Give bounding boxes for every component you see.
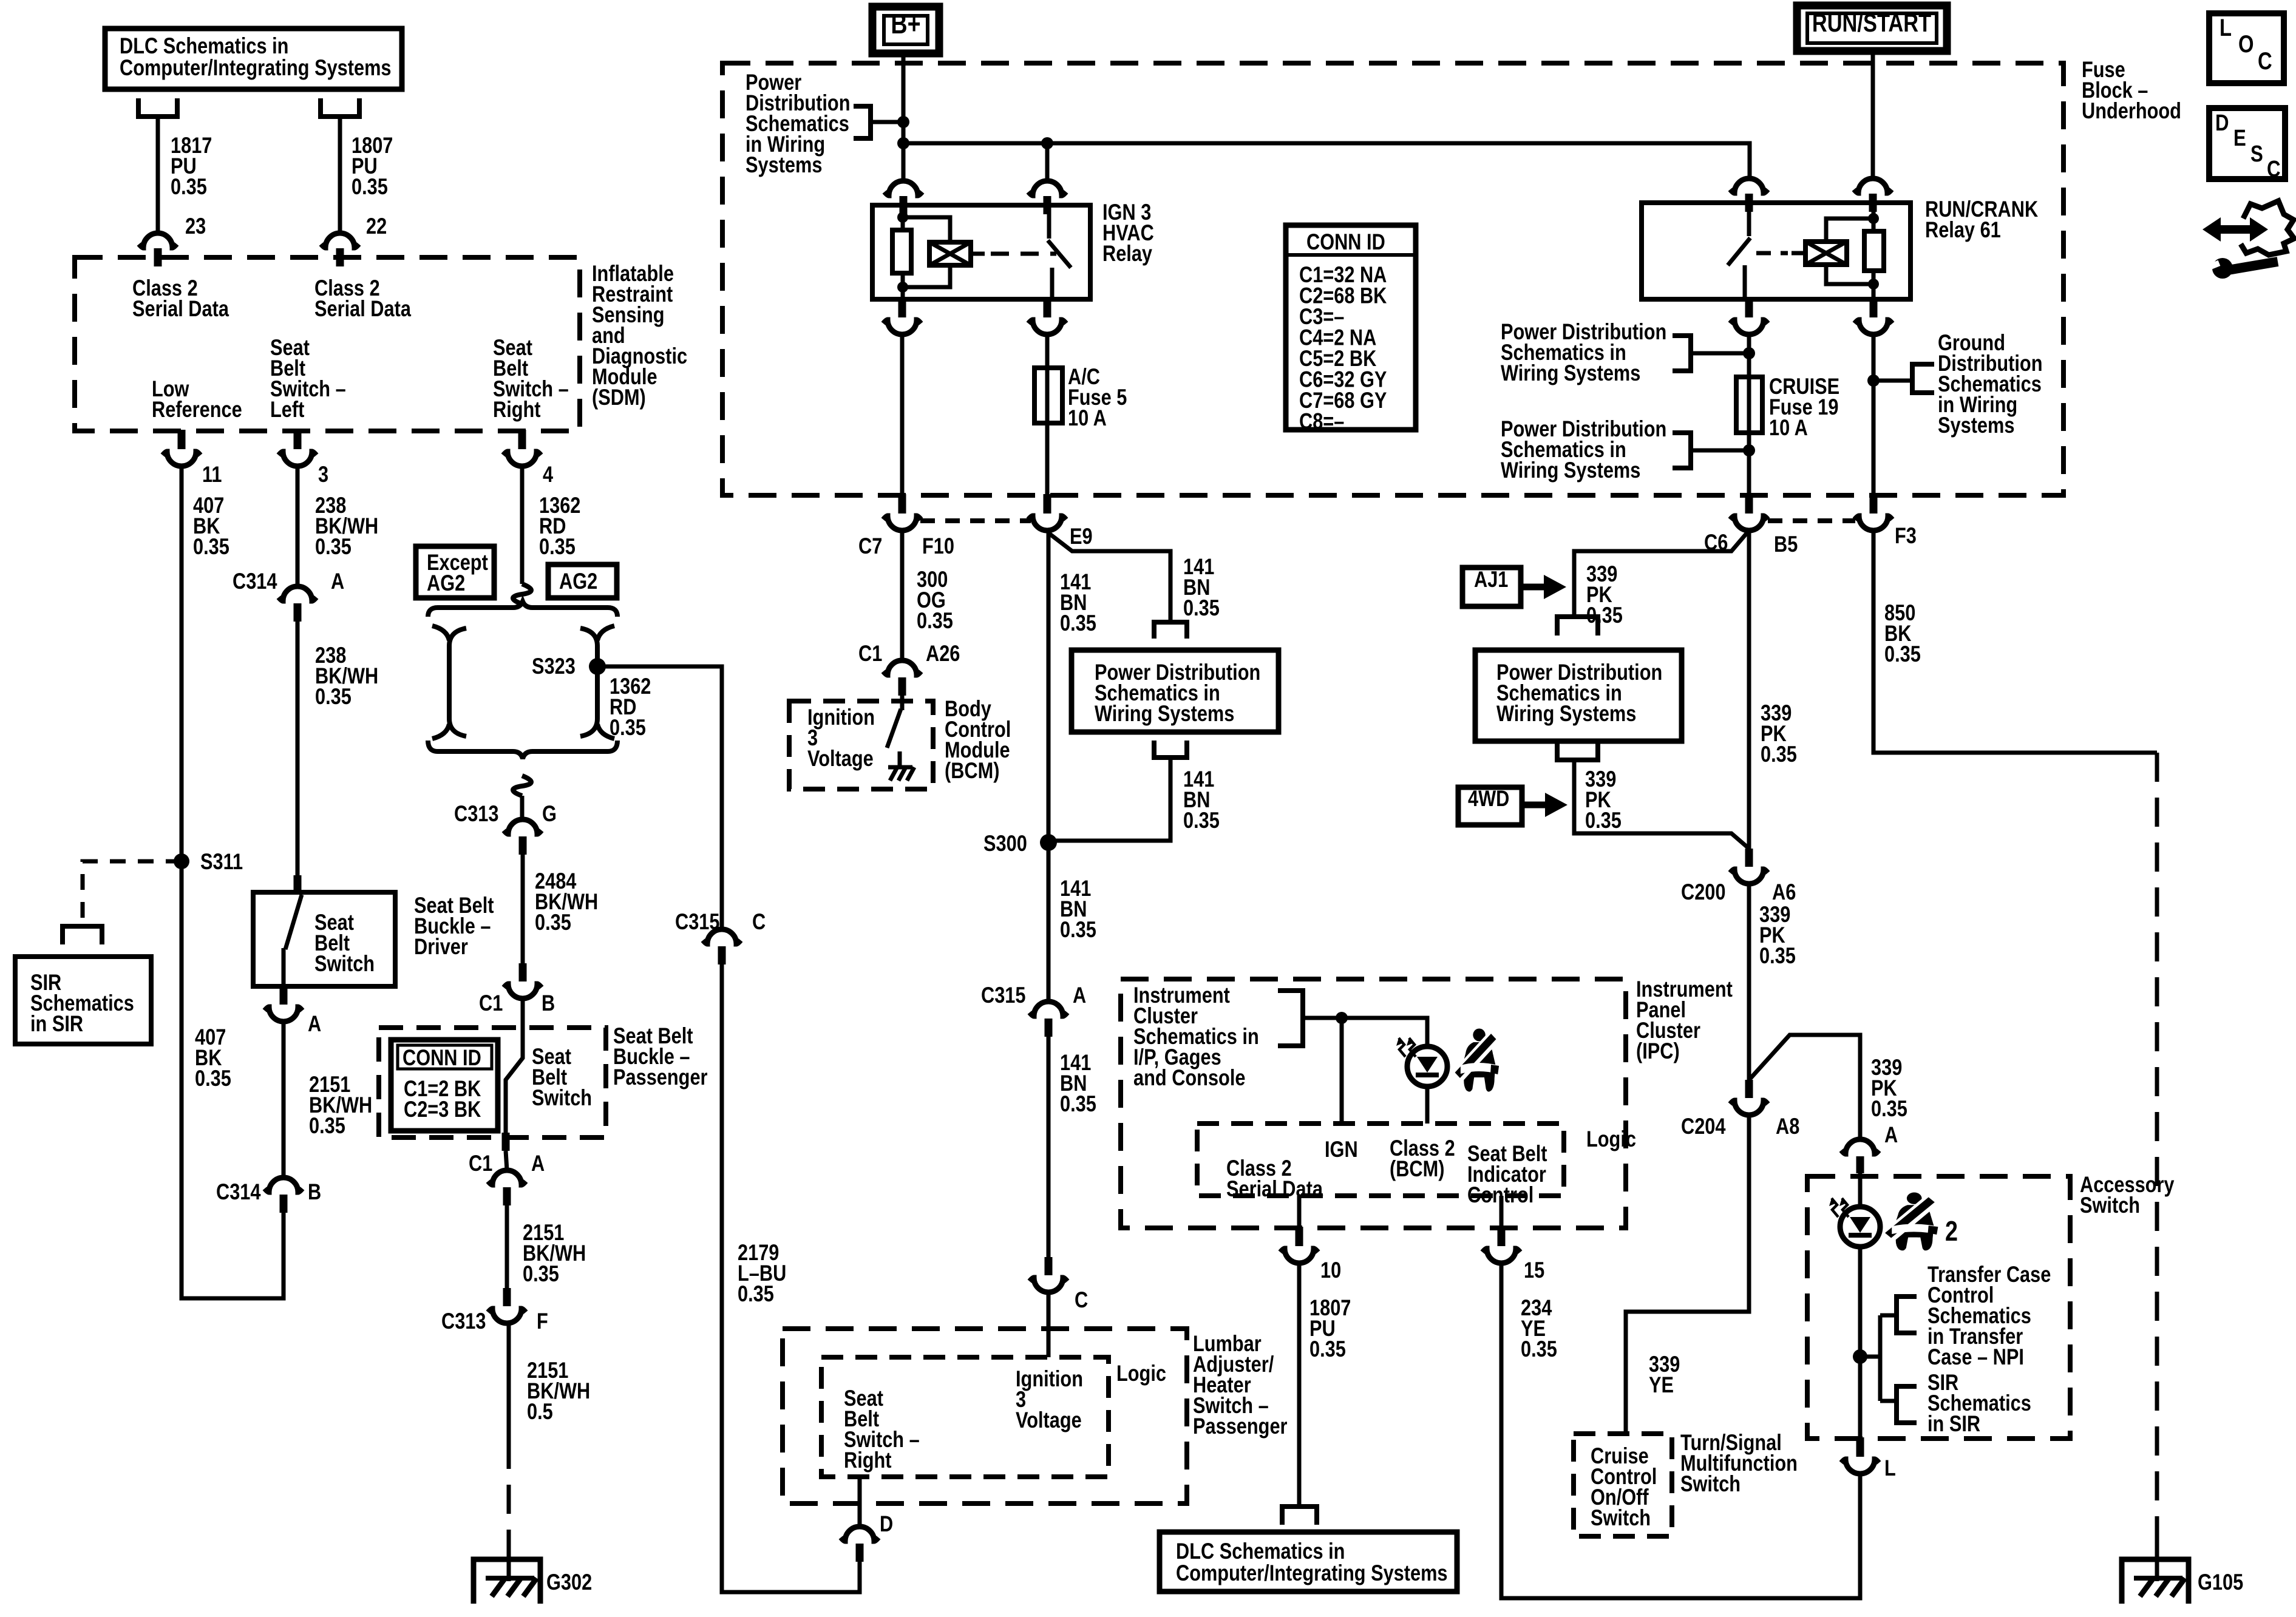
svg-text:10 A: 10 A [1068, 405, 1107, 431]
relay box: IGN 3 HVAC Relay [872, 205, 1090, 299]
switch blade inside driver buckle [285, 895, 302, 949]
svg-text:B: B [308, 1179, 321, 1205]
wire to C313 G [520, 796, 525, 819]
connector C314 A (female arc) [279, 586, 316, 601]
seat belt person icon (accessory) [1884, 1193, 1941, 1252]
svg-text:Reference: Reference [152, 397, 242, 422]
svg-text:Driver: Driver [414, 934, 468, 960]
connector connector C7 cavity F10 at box bottom edge [898, 494, 906, 514]
wire to SIR bracket [1880, 1399, 1894, 1403]
svg-text:C8=–: C8=– [1299, 409, 1344, 435]
wire relay61 right pin down to F3 [1872, 334, 1876, 495]
bracket power distribution (lower) [1673, 433, 1691, 468]
short dashed connector face line B5-F3 [1768, 518, 1855, 523]
svg-text:and Console: and Console [1133, 1065, 1245, 1091]
svg-text:0.35: 0.35 [917, 608, 953, 634]
junction bus [897, 137, 909, 149]
wire B+ into fuse block [902, 53, 906, 181]
box: SIR Schematics in SIR [15, 957, 151, 1044]
dashed actuation link (relay61) [1756, 251, 1788, 256]
connector C1 B (male stub into female cup) [519, 963, 527, 981]
svg-text:0.35: 0.35 [1521, 1337, 1557, 1362]
wire 2151 BK/WH 0.5 to ground G302 (partly dashed) [507, 1323, 511, 1440]
svg-text:Serial Data: Serial Data [1226, 1176, 1323, 1202]
bracket to DLC schematics (bottom) [1282, 1507, 1317, 1525]
svg-text:B: B [542, 991, 555, 1016]
junction accessory references [1853, 1349, 1867, 1364]
svg-text:C1: C1 [469, 1151, 492, 1176]
svg-text:F3: F3 [1895, 523, 1917, 549]
svg-text:E: E [2233, 126, 2246, 151]
svg-text:0.35: 0.35 [738, 1281, 774, 1307]
wire 238 BK/WH from pin 3 to C314 A [296, 466, 300, 586]
svg-text:0.35: 0.35 [523, 1261, 559, 1287]
svg-text:0.35: 0.35 [193, 534, 229, 560]
relay61 node upper [1868, 213, 1879, 224]
svg-text:(BCM): (BCM) [945, 758, 999, 784]
connector IGN 3 relay pin (B+ side) at box top edge [885, 181, 922, 195]
svg-text:C: C [2267, 157, 2281, 182]
svg-text:23: 23 [185, 214, 206, 239]
relay61 node lower [1868, 279, 1879, 290]
svg-text:AG2: AG2 [427, 571, 465, 596]
svg-text:C: C [752, 909, 766, 935]
svg-text:0.35: 0.35 [1060, 611, 1096, 636]
connector C1 A26 (female arc) [883, 660, 921, 675]
svg-text:S311: S311 [200, 849, 243, 875]
svg-text:L: L [1884, 1456, 1896, 1481]
switch blade inside passenger buckle [506, 998, 523, 1136]
svg-text:CONN ID: CONN ID [402, 1045, 481, 1071]
svg-text:Switch: Switch [532, 1085, 592, 1111]
svg-text:Logic: Logic [1586, 1127, 1636, 1152]
svg-text:Wiring Systems: Wiring Systems [1501, 458, 1640, 483]
svg-text:O: O [2238, 30, 2254, 58]
svg-text:A8: A8 [1776, 1114, 1799, 1139]
relay node upper [897, 212, 908, 223]
wire into lumbar switch [1047, 1292, 1051, 1357]
splice S300 [1040, 834, 1057, 851]
svg-text:A26: A26 [926, 641, 960, 666]
wire 407 BK from pin 11 to S311 and down to splice with driver buckle return [182, 466, 284, 1298]
svg-text:0.35: 0.35 [1183, 808, 1220, 833]
svg-text:IGN: IGN [1325, 1137, 1358, 1162]
wire 850 BK from F3 to G105 [1873, 531, 2157, 753]
wire 339 YE from C204 to cruise control switch [1626, 1115, 1749, 1434]
connector RUN/CRANK relay pin (switch side) at box top edge [1730, 178, 1768, 193]
connector relay61 lower pin (to cruise fuse) at box bottom edge [1745, 298, 1753, 317]
dashed box: Inflatable Restraint Sensing and Diagnostic Module (SDM) [75, 257, 580, 431]
ground G302 [474, 1559, 540, 1604]
connector SDM pin 3 at box bottom edge [294, 430, 302, 449]
svg-text:G: G [542, 801, 557, 827]
box: Power Distribution Schematics in Wiring Systems (middle) [1072, 650, 1279, 732]
wire bracket tap upper [1691, 351, 1749, 356]
IPC internal feed wire [1303, 1018, 1427, 1046]
icon arrows and wrench [2217, 225, 2254, 234]
svg-text:0.5: 0.5 [527, 1399, 553, 1425]
ground G105 [2122, 1559, 2189, 1604]
return wire 141 BN to S300 [1048, 758, 1170, 841]
connector C200 A6 (male stub into female cup) [1745, 849, 1753, 867]
wire 2151 BK/WH from driver buckle to C314 B [282, 1022, 286, 1178]
box: DLC Schematics reference (top left) [105, 29, 402, 89]
svg-text:0.35: 0.35 [535, 910, 571, 935]
BCM internal ground [888, 765, 912, 770]
svg-text:0.35: 0.35 [195, 1066, 231, 1091]
svg-text:A: A [531, 1151, 545, 1176]
coil actuation stub (relay61) [1792, 251, 1805, 256]
connector driver buckle pin A at box bottom edge [280, 985, 288, 1005]
connector connector C (lumbar switch) (male stub into female cup) [1045, 1257, 1053, 1275]
svg-text:Switch: Switch [1591, 1505, 1651, 1531]
bracket to DLC schematics (left) [138, 98, 177, 117]
wire RUN/START into fuse block [1871, 51, 1875, 178]
svg-text:C2=3 BK: C2=3 BK [404, 1097, 481, 1122]
box: Power Distribution Schematics in Wiring Systems (right) [1475, 650, 1682, 741]
connector C1 A (female arc) [488, 1170, 526, 1185]
connector IGN3 relay lower pin (to fuse 5) at box bottom edge [1044, 298, 1051, 317]
connector SDM pin 22 at box top edge [321, 233, 359, 248]
wire 339 PK from reference to C200 A6 [1574, 760, 1749, 849]
wire 339 PK from C6 to AJ1 reference [1574, 531, 1749, 615]
bus wire to RUN/CRANK relay [903, 143, 1750, 181]
seat belt person icon (IPC) [1455, 1029, 1501, 1093]
connector SDM pin 4 at box bottom edge [518, 430, 526, 449]
connector C313 F (male stub into female cup) [503, 1288, 511, 1306]
svg-text:C315: C315 [981, 983, 1026, 1008]
accessory switch LED [1840, 1207, 1880, 1247]
BCM internal switch blade [900, 696, 905, 710]
junction ground distribution [1867, 375, 1880, 387]
bracket out of power distribution box (bottom) [1154, 741, 1187, 758]
svg-text:Wiring Systems: Wiring Systems [1095, 701, 1234, 727]
wire 339 PK from C200 to C204 [1747, 884, 1751, 1080]
IGN3 relay switch [1047, 205, 1051, 239]
connector IGN 3 relay pin (switch side) at box top edge [1028, 181, 1066, 195]
connector relay61 lower pin (to ground dist) at box bottom edge [1870, 298, 1878, 317]
svg-text:B+: B+ [891, 8, 920, 39]
connector C315 A (female arc) [1030, 1002, 1067, 1016]
bracket into power distribution box (right top) [1557, 617, 1598, 636]
svg-text:0.35: 0.35 [315, 534, 352, 560]
connector C314 B (female arc) [265, 1178, 302, 1192]
left option path bracket (Except AG2) [449, 628, 466, 736]
svg-text:15: 15 [1524, 1258, 1544, 1283]
A/C Fuse 5 10A [1045, 334, 1050, 495]
dashed box: Instrument Panel Cluster (IPC) [1121, 979, 1626, 1228]
svg-text:A6: A6 [1772, 880, 1796, 905]
dashed box: Cruise Control On/Off Switch [1574, 1434, 1672, 1536]
terminal box B+ [872, 7, 939, 53]
svg-text:E9: E9 [1070, 524, 1093, 549]
wire relay61 to CRUISE fuse and down to C6 [1747, 332, 1751, 495]
wire 2179 L-BU from C315 C down and across to seat belt switch right [722, 964, 860, 1592]
svg-text:Left: Left [270, 397, 304, 422]
connector SDM pin 23 at box top edge [139, 233, 177, 248]
wire 141 BN from C315 A to lumbar switch [1047, 1037, 1051, 1257]
svg-text:C204: C204 [1681, 1114, 1726, 1139]
splice S311 [174, 853, 189, 869]
svg-text:Systems: Systems [746, 152, 822, 178]
dashed box: Seat Belt Switch - Right logic [821, 1357, 1109, 1477]
CRUISE Fuse 19 10A [1736, 377, 1762, 433]
RUN/CRANK relay coil (X box) [1805, 242, 1847, 265]
lower option brace [428, 741, 617, 759]
relay61 coil feed lower [1826, 265, 1873, 284]
dashed box: IPC logic block [1197, 1124, 1564, 1196]
connector IPC pin 15 at box bottom edge [1498, 1227, 1506, 1246]
connector C204 A8 (male stub into female cup) [1745, 1080, 1753, 1098]
connector C315 C (female arc) [703, 929, 741, 944]
wire class 2 serial data out of logic [1297, 1196, 1302, 1228]
LED cathode wire to logic [1425, 1086, 1430, 1124]
svg-text:A: A [1073, 983, 1086, 1008]
dashed box: Fuse Block - Underhood [722, 63, 2063, 495]
svg-text:B5: B5 [1774, 532, 1798, 557]
relay box: RUN/CRANK Relay 61 [1642, 203, 1911, 299]
svg-text:AG2: AG2 [559, 569, 597, 594]
svg-text:Logic: Logic [1116, 1361, 1166, 1386]
svg-text:C1: C1 [858, 641, 882, 666]
svg-text:0.35: 0.35 [1183, 595, 1220, 621]
CONN ID table (fuse block) [1286, 225, 1416, 430]
right option path bracket (AG2) with wire [580, 628, 597, 736]
wire 1807 PU to DLC reference [1297, 1263, 1302, 1504]
svg-text:Wiring Systems: Wiring Systems [1496, 701, 1636, 727]
RUN/CRANK relay coil resistor [1872, 203, 1876, 231]
IGN wire to logic [1340, 1018, 1344, 1124]
svg-text:0.35: 0.35 [1060, 917, 1096, 943]
IGN3 relay coil resistor [901, 205, 905, 230]
wire 1807 PU from DLC [338, 117, 342, 234]
connector SDM pin 11 at box bottom edge [178, 430, 186, 449]
svg-text:D: D [880, 1511, 893, 1537]
LED emission arrows [1399, 1038, 1405, 1057]
wire break squiggle [513, 584, 531, 604]
callout box AJ1 with arrow [1462, 568, 1521, 606]
junction at B+ feed [897, 116, 909, 128]
svg-text:A: A [308, 1011, 321, 1037]
upper option brace [428, 602, 617, 617]
svg-text:10: 10 [1320, 1258, 1341, 1283]
dashed box: Seat Belt Buckle - Passenger [379, 1028, 606, 1137]
svg-text:3: 3 [318, 462, 328, 487]
svg-text:0.35: 0.35 [315, 684, 352, 710]
dashed box: Lumbar Adjuster/Heater Switch - Passenger [783, 1329, 1187, 1503]
svg-text:4: 4 [543, 462, 553, 487]
connector RUN/CRANK relay pin (coil side) at box top edge [1854, 178, 1892, 193]
svg-text:Voltage: Voltage [807, 746, 874, 771]
junction IGN3 relay coil-side [1041, 137, 1053, 149]
relay node lower [897, 282, 908, 293]
svg-text:C: C [1075, 1287, 1088, 1313]
bracket power distribution (upper) [1673, 336, 1691, 371]
svg-text:F10: F10 [922, 534, 954, 559]
coil feed upper [903, 217, 950, 242]
svg-text:Switch: Switch [1680, 1471, 1741, 1497]
svg-text:(BCM): (BCM) [1390, 1156, 1444, 1182]
wire seat belt switch right output to D [858, 1477, 862, 1527]
connector IPC pin 10 at box bottom edge [1296, 1227, 1303, 1246]
wire 339 PK from B5 down to C200 [1747, 531, 1751, 849]
junction above cruise fuse [1743, 347, 1755, 359]
wire from IGN3 relay to C7/F10 [900, 334, 905, 495]
box: DLC Schematics in Computer/Integrating Systems (bottom) [1160, 1532, 1457, 1592]
svg-text:0.35: 0.35 [171, 174, 207, 200]
svg-text:CONN ID: CONN ID [1306, 229, 1385, 255]
svg-text:C7: C7 [858, 534, 882, 559]
wire 234 YE from pin 15 to accessory switch [1501, 1263, 1860, 1598]
bracket ground distribution [1912, 364, 1934, 393]
svg-text:RUN/START: RUN/START [1812, 9, 1932, 38]
svg-text:Right: Right [844, 1448, 892, 1473]
svg-text:0.35: 0.35 [309, 1113, 345, 1139]
dashed box: Accessory Switch [1807, 1176, 2070, 1439]
svg-text:S: S [2250, 141, 2263, 167]
wire bracket tap [871, 120, 903, 124]
seat belt indicator LED (IPC) [1407, 1046, 1447, 1086]
svg-text:0.35: 0.35 [1060, 1091, 1096, 1117]
svg-text:D: D [2215, 110, 2229, 136]
wire 141 BN from E9 down to S300 [1047, 531, 1051, 1002]
box: Seat Belt Buckle - Driver [294, 875, 302, 893]
svg-text:A: A [1884, 1122, 1898, 1148]
svg-text:C313: C313 [454, 801, 499, 827]
svg-text:Switch: Switch [2080, 1193, 2140, 1218]
junction IGN feed [1336, 1012, 1348, 1024]
svg-text:AJ1: AJ1 [1474, 567, 1508, 592]
coil actuation stub [971, 252, 985, 256]
short dashed connector face line C7-E9 [920, 518, 1031, 523]
wire seat belt indicator control out of logic [1500, 1196, 1504, 1228]
svg-text:F: F [537, 1309, 548, 1334]
svg-text:Relay: Relay [1102, 241, 1152, 266]
svg-text:0.35: 0.35 [1309, 1337, 1346, 1362]
svg-text:C1: C1 [479, 991, 503, 1016]
wire 1817 PU from DLC [156, 117, 160, 234]
svg-text:Serial Data: Serial Data [314, 296, 412, 322]
svg-text:10 A: 10 A [1769, 415, 1808, 441]
svg-text:11: 11 [202, 462, 222, 487]
connector C313 G (female arc) [504, 819, 542, 834]
svg-text:0.35: 0.35 [1884, 642, 1921, 667]
bracket transfer case control schematics [1897, 1297, 1917, 1333]
wire into accessory LED [1858, 1173, 1863, 1207]
wire 300 OG from C7 F10 to BCM C1 A26 [900, 531, 905, 660]
bracket to DLC schematics (right) [321, 98, 359, 117]
svg-text:(IPC): (IPC) [1636, 1039, 1680, 1064]
splice S323 [589, 658, 606, 675]
wire LED to pin L [1858, 1247, 1863, 1439]
svg-text:A: A [331, 569, 344, 594]
dashed wire to G105 [2155, 753, 2159, 1545]
svg-text:22: 22 [366, 214, 387, 239]
wire bracket tap lower [1691, 449, 1749, 453]
bracket SIR schematics [1897, 1386, 1917, 1423]
bracket to SIR schematics [63, 926, 102, 944]
terminal box RUN/START [1797, 5, 1947, 51]
svg-text:Relay 61: Relay 61 [1925, 217, 2001, 243]
relay61 coil feed upper [1826, 219, 1873, 242]
svg-text:G302: G302 [546, 1570, 592, 1595]
RUN/CRANK relay switch [1747, 203, 1751, 236]
connector connector E9 at box bottom edge [1044, 494, 1051, 514]
svg-text:C313: C313 [441, 1309, 486, 1334]
wire to IGN3 relay right pin [1045, 143, 1050, 181]
wire 1362 RD from S323 to C315 C [597, 666, 722, 929]
dashed wire from S311 to SIR reference [83, 861, 182, 923]
wire 2484 BK/WH from C313 G to C1 B [521, 855, 525, 963]
connector IGN3 relay lower pin (to C7) at box bottom edge [898, 298, 906, 317]
dashed box: Body Control Module (BCM) ignition 3 voltage [789, 701, 933, 789]
branch wire 339 PK to accessory switch [1750, 1035, 1860, 1139]
svg-text:C314: C314 [233, 569, 277, 594]
wire 2151 BK/WH from C1 A to C313 F [505, 1205, 509, 1288]
coil feed lower [903, 265, 950, 287]
svg-text:Voltage: Voltage [1016, 1408, 1082, 1433]
svg-text:Computer/Integrating Systems: Computer/Integrating Systems [120, 55, 392, 81]
icon box DESC [2209, 108, 2285, 179]
svg-text:G105: G105 [2198, 1570, 2243, 1595]
svg-text:L: L [2220, 14, 2232, 41]
svg-text:YE: YE [1649, 1372, 1674, 1398]
passenger buckle pin A stub [502, 1133, 510, 1151]
box: Except AG2 [416, 546, 494, 598]
box: AG2 [548, 564, 617, 598]
connector connector C6 cavity B5 at box bottom edge [1745, 494, 1753, 514]
wire 238 BK/WH from C314 A to seat belt switch driver [296, 622, 300, 876]
svg-text:0.35: 0.35 [539, 534, 576, 560]
svg-text:S323: S323 [532, 654, 576, 679]
wire bracket tap ground dist [1873, 379, 1912, 383]
wire to C1 A [506, 1151, 507, 1170]
LED emission arrows [1832, 1198, 1838, 1217]
svg-text:C314: C314 [216, 1179, 261, 1205]
svg-text:Wiring Systems: Wiring Systems [1501, 361, 1640, 386]
svg-text:Computer/Integrating Systems: Computer/Integrating Systems [1176, 1561, 1448, 1586]
svg-text:C: C [2258, 47, 2272, 75]
wire 1362 RD from pin 4 [520, 466, 525, 584]
svg-text:0.35: 0.35 [1761, 742, 1797, 767]
connector connector F3 at box bottom edge [1870, 494, 1878, 514]
bracket instrument cluster schematics [1278, 991, 1303, 1046]
connector accessory switch pin L at box bottom edge [1856, 1437, 1864, 1457]
IGN3 relay coil (X box) [929, 242, 971, 265]
svg-text:Case – NPI: Case – NPI [1927, 1344, 2024, 1370]
svg-text:Passenger: Passenger [613, 1065, 708, 1090]
svg-text:Right: Right [493, 397, 541, 422]
bracket out of power distribution box (right bottom) [1557, 741, 1598, 760]
svg-text:0.35: 0.35 [610, 715, 646, 741]
svg-text:Passenger: Passenger [1193, 1414, 1288, 1439]
wire into G105 [2155, 1545, 2159, 1581]
svg-text:Systems: Systems [1938, 413, 2014, 438]
svg-text:in SIR: in SIR [30, 1011, 83, 1037]
svg-text:in SIR: in SIR [1927, 1411, 1980, 1437]
reference tree to transfer case / SIR schematics [1860, 1355, 1880, 1359]
CONN ID table (passenger buckle) [391, 1040, 498, 1131]
wire break squiggle [513, 776, 531, 796]
connector connector D (female arc) [841, 1527, 878, 1541]
connector A into accessory switch [1841, 1139, 1879, 1154]
svg-text:4WD: 4WD [1468, 786, 1509, 812]
svg-text:Switch: Switch [314, 951, 375, 977]
svg-text:0.35: 0.35 [1759, 943, 1796, 969]
bracket into power distribution box (top) [1154, 622, 1187, 639]
svg-text:Serial Data: Serial Data [132, 296, 229, 322]
svg-text:(SDM): (SDM) [592, 385, 646, 410]
